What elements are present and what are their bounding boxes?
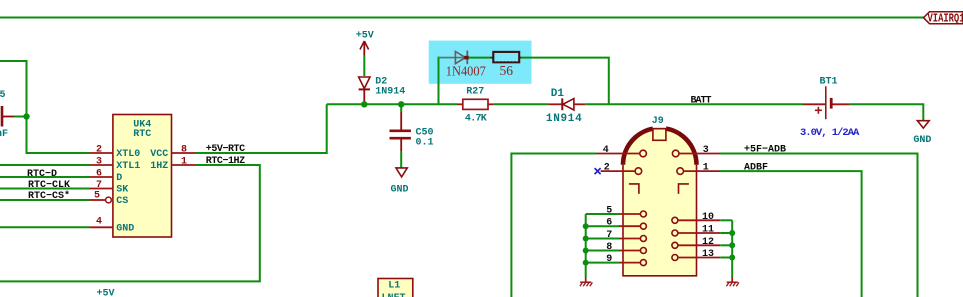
highlight annotation box (429, 41, 532, 84)
svg-text:6: 6 (96, 169, 102, 180)
wire RTC-CS* (0, 199, 90, 201)
svg-text:CS: CS (116, 196, 128, 207)
svg-text:GND: GND (116, 223, 134, 234)
pin 7 stub (90, 188, 113, 190)
svg-text:4: 4 (96, 217, 102, 228)
pin 3 stub (90, 164, 113, 166)
hierarchical label VIAIRQ1 (924, 12, 963, 26)
earth ground right (726, 277, 739, 286)
svg-text:2: 2 (96, 145, 102, 156)
svg-text:XTL0: XTL0 (116, 149, 140, 160)
diode 1N4007 (annotation) (446, 51, 486, 79)
svg-text:13: 13 (702, 249, 714, 260)
wire battery to GND (850, 104, 924, 120)
wire C50 to GND (400, 152, 402, 168)
J9 pin 12 (672, 237, 732, 249)
svg-text:L1: L1 (388, 281, 400, 292)
svg-text:1N4007: 1N4007 (446, 64, 486, 79)
capacitor pin stub (3, 116, 14, 118)
svg-text:3.0V, 1/2AA: 3.0V, 1/2AA (800, 127, 860, 139)
svg-text:BT1: BT1 (820, 77, 838, 88)
wire +5V-RTC (196, 104, 327, 153)
J9 pin 3 (672, 145, 719, 157)
power symbol +5V (356, 30, 374, 55)
wire R27 to D1 (493, 103, 548, 105)
J9 pin 2 with no-connect X (595, 163, 642, 175)
svg-text:RTC−1HZ: RTC−1HZ (206, 156, 245, 167)
pin 8 stub (172, 152, 196, 154)
svg-text:RTC−CLK: RTC−CLK (28, 180, 70, 191)
J9 pin 7 (586, 230, 647, 242)
junction pin7 (583, 236, 589, 242)
svg-text:D: D (116, 173, 122, 184)
svg-text:D1: D1 (551, 88, 565, 100)
right pin bus vertical (731, 220, 733, 277)
junction pin13 (729, 255, 735, 261)
wire teal-gray into annotation diode (439, 57, 445, 59)
svg-text:+5V: +5V (97, 288, 115, 297)
svg-text:56: 56 (500, 63, 514, 78)
svg-text:12: 12 (702, 237, 714, 248)
svg-text:+5V: +5V (356, 30, 374, 41)
bypass branch right wire and leg (522, 58, 609, 105)
svg-text:1HZ: 1HZ (150, 161, 168, 172)
svg-text:RTC−CS*: RTC−CS* (28, 190, 70, 202)
J9 pin 11 (672, 225, 732, 237)
svg-text:1N914: 1N914 (375, 87, 405, 98)
svg-text:GND: GND (913, 135, 931, 146)
wire ADBF (720, 171, 862, 297)
junction pin8 (583, 248, 589, 254)
wire +5V to J9 pin 4 (511, 154, 596, 297)
svg-text:J9: J9 (652, 116, 664, 127)
svg-text:2: 2 (604, 163, 610, 174)
J9 pin 5 (586, 206, 647, 218)
svg-text:10: 10 (702, 212, 714, 223)
capacitor (cut off at left edge) plate (1, 106, 4, 127)
pin 1 stub (172, 164, 196, 166)
svg-text:8: 8 (606, 242, 612, 253)
junction at D2 (361, 101, 367, 107)
wire RTC-CLK (0, 188, 90, 190)
resistor 56 (annotation) (491, 52, 522, 78)
junction pin11 (729, 230, 735, 236)
resistor R27 (457, 87, 493, 125)
svg-text:+5V−RTC: +5V−RTC (206, 144, 245, 155)
main battery bus wire (327, 103, 457, 105)
wire to chip pin 2 (upper left elbow) (0, 61, 90, 153)
diode D1 (546, 88, 585, 125)
junction node at capacitor tap (23, 113, 29, 119)
svg-text:8: 8 (181, 145, 187, 156)
svg-text:9: 9 (606, 254, 612, 265)
svg-text:1N914: 1N914 (546, 113, 583, 125)
svg-text:7: 7 (96, 180, 102, 191)
inductor L1 (cut off at bottom) (378, 279, 413, 297)
ground symbol right (913, 121, 931, 147)
svg-text:11: 11 (702, 225, 714, 236)
svg-text:7: 7 (606, 230, 612, 241)
svg-text:RTC−D: RTC−D (27, 169, 57, 180)
pin 2 stub (90, 152, 113, 154)
svg-text:VCC: VCC (150, 149, 168, 160)
wire RTC-D (0, 176, 90, 178)
wire D1 to battery (585, 103, 803, 105)
junction pin9 (583, 260, 589, 266)
wire +5F-ADB (720, 154, 918, 297)
svg-text:5: 5 (0, 90, 6, 101)
svg-text:3: 3 (96, 157, 102, 168)
battery BT1 (800, 77, 860, 139)
junction pin12 (729, 242, 735, 248)
shield bracket left (629, 184, 639, 194)
J9 pin 4 (597, 145, 647, 157)
svg-text:0.1: 0.1 (416, 137, 434, 148)
svg-text:1: 1 (703, 163, 709, 174)
svg-text:1: 1 (181, 157, 187, 168)
wire RTC-1HZ (0, 165, 260, 281)
svg-text:nF: nF (0, 129, 8, 140)
bypass branch left leg wire (438, 57, 440, 105)
wire VIAIRQ1 net top (0, 17, 924, 19)
capacitor C50 (390, 104, 434, 151)
earth ground left (580, 277, 593, 286)
svg-text:6: 6 (606, 218, 612, 229)
wire cap to junction (14, 116, 27, 118)
junction pin6 (583, 223, 589, 229)
wire diode to resistor 56 (468, 57, 490, 59)
svg-text:VIAIRQ1: VIAIRQ1 (928, 13, 963, 26)
ground symbol under C50 (391, 168, 409, 196)
J9 pin 10 (672, 212, 732, 224)
wire to chip pin 3 (0, 164, 90, 166)
shield bracket right (679, 184, 689, 194)
J9 pin 9 (586, 254, 647, 266)
svg-text:BATT: BATT (691, 96, 712, 107)
svg-text:ADBF: ADBF (744, 163, 768, 174)
J9 pin 1 (677, 163, 720, 175)
svg-text:4.7K: 4.7K (465, 114, 487, 125)
J9 pin 8 (586, 242, 647, 254)
IC UK4 RTC body (113, 115, 172, 238)
svg-text:XTL1: XTL1 (116, 161, 140, 172)
svg-text:+5F−ADB: +5F−ADB (744, 145, 786, 156)
svg-text:5: 5 (94, 191, 100, 202)
J9 pin 13 (672, 249, 732, 261)
connector keying notch (653, 124, 667, 128)
svg-text:RTC: RTC (133, 129, 151, 140)
wire to chip pin 4 (0, 226, 90, 228)
svg-text:GND: GND (391, 185, 409, 196)
svg-text:SK: SK (116, 185, 128, 196)
connector J9 body (623, 128, 697, 276)
svg-text:4: 4 (603, 145, 609, 156)
svg-text:3: 3 (703, 145, 709, 156)
pin 5 stub with inversion bubble (90, 197, 111, 203)
svg-text:LNFT: LNFT (382, 293, 406, 297)
pin 6 stub (90, 176, 113, 178)
pin 4 stub (90, 226, 113, 228)
left pin bus vertical (585, 214, 587, 278)
diode D2 (359, 77, 406, 105)
J9 pin 6 (586, 218, 647, 230)
junction at C50 (398, 101, 404, 107)
svg-text:R27: R27 (466, 87, 484, 98)
svg-text:5: 5 (606, 206, 612, 217)
wire +5V to D2 (363, 56, 365, 77)
